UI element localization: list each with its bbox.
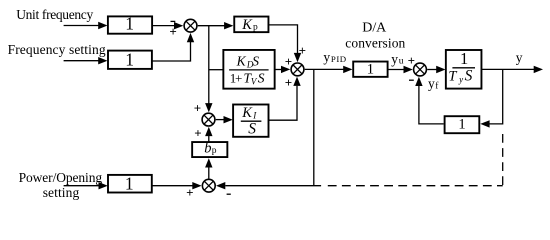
node: plus sign at S2 top input xyxy=(299,43,306,58)
svg-text:u: u xyxy=(399,57,404,67)
summing junction S2: PID sum xyxy=(291,63,304,76)
node: D/A conversion label xyxy=(345,21,405,51)
svg-text:1: 1 xyxy=(367,62,375,78)
svg-text:p: p xyxy=(253,23,258,33)
wire: S5 up to bp block xyxy=(205,158,212,178)
svg-text:K: K xyxy=(236,53,247,68)
svg-text:y: y xyxy=(516,50,523,65)
svg-text:1: 1 xyxy=(125,50,134,70)
svg-text:1: 1 xyxy=(458,116,466,132)
svg-text:S: S xyxy=(258,70,265,85)
svg-text:+: + xyxy=(285,75,292,90)
wire: dashed feedback vertical segment xyxy=(502,134,504,185)
node: minus sign at S3 bottom input xyxy=(409,79,414,81)
svg-text:PID: PID xyxy=(331,54,347,64)
svg-text:D/A: D/A xyxy=(362,21,387,36)
wire: bp up to S4 bottom input xyxy=(205,127,212,142)
wire: output branch down into FB block xyxy=(480,69,502,127)
svg-text:y: y xyxy=(458,75,463,85)
node: plus sign at S4 bottom input xyxy=(194,125,201,140)
wire: Kp output to S2 top input xyxy=(269,25,301,62)
svg-text:K: K xyxy=(241,105,253,121)
block DA: D/A converter gain 1 xyxy=(353,62,387,78)
svg-text:f: f xyxy=(435,80,439,91)
node: plus sign at S2 bottom input xyxy=(285,75,292,90)
node: yPID label xyxy=(323,50,346,65)
svg-text:1: 1 xyxy=(125,174,134,194)
wire: frequency setting input arrow xyxy=(64,57,108,64)
wire: KI output up to S2 bottom input xyxy=(269,77,301,121)
wire: error branch into KD block xyxy=(209,69,224,71)
svg-text:setting: setting xyxy=(43,185,80,200)
block KD: derivative term KD.S/(1+TV.S) xyxy=(223,50,274,89)
svg-text:Frequency setting: Frequency setting xyxy=(8,42,106,57)
summing junction S1 xyxy=(184,19,197,32)
block KI: integral term KI/S xyxy=(233,105,268,138)
node: plus sign at S4 top input xyxy=(194,100,201,115)
wire: B1 to summing junction S1 xyxy=(152,22,183,29)
svg-text:y: y xyxy=(428,76,435,91)
svg-text:T: T xyxy=(448,68,457,84)
svg-text:+: + xyxy=(194,125,201,140)
block B2: frequency setting sampling gain 1 xyxy=(108,50,152,70)
summing junction S5: power feedback sum xyxy=(202,179,215,192)
svg-text:+: + xyxy=(186,185,193,200)
svg-text:1: 1 xyxy=(460,49,468,68)
svg-text:Unit frequency: Unit frequency xyxy=(16,7,93,22)
block bp: permanent droop coefficient xyxy=(192,140,227,157)
node: minus sign at S5 right input xyxy=(227,193,231,195)
wire: DA to S3 xyxy=(388,66,413,73)
svg-text:1: 1 xyxy=(125,14,134,34)
summing junction S4: integral input sum xyxy=(202,113,215,126)
node: yf label xyxy=(428,76,439,91)
block B3: power setting sampling gain 1 xyxy=(108,174,152,194)
wire: power/opening input arrow xyxy=(64,182,108,189)
node: Frequency setting label xyxy=(8,42,106,57)
svg-text:p: p xyxy=(212,146,217,156)
wire: output y arrow xyxy=(482,66,543,73)
summing junction S3: servo error xyxy=(414,63,427,76)
node: Power/Opening setting label xyxy=(19,170,103,200)
svg-text:+: + xyxy=(299,43,306,58)
wire: KD output to S2 left input xyxy=(276,66,291,73)
block Ty: servomotor 1/(Ty.S) xyxy=(446,49,482,88)
wire: S2 output to DA block xyxy=(305,66,353,73)
node: plus sign at S2 left input xyxy=(285,54,292,69)
node: yu label xyxy=(391,51,404,66)
wire: S3 to Ty block xyxy=(427,66,445,73)
svg-text:S: S xyxy=(252,53,259,68)
node: plus sign at S5 left input xyxy=(186,185,193,200)
svg-text:S: S xyxy=(248,120,256,137)
svg-text:S: S xyxy=(465,67,473,84)
wire: dashed feedback horizontal segment xyxy=(328,185,503,187)
node: Unit frequency label xyxy=(16,7,93,22)
wire: B2 to S1 bottom input xyxy=(152,33,194,61)
wire: unit frequency input arrow xyxy=(64,22,108,29)
wire: error branch down to integral summing junction S4 xyxy=(205,26,212,113)
wire: yPID feedback branch down xyxy=(313,69,315,185)
svg-text:+: + xyxy=(235,70,242,85)
block B1: unit frequency sampling gain 1 xyxy=(108,14,152,34)
svg-text:K: K xyxy=(241,17,253,33)
block FB: position feedback gain 1 xyxy=(445,116,480,133)
svg-text:conversion: conversion xyxy=(345,36,405,51)
node: plus sign at S1 bottom input xyxy=(169,24,176,39)
wire: FB output to S3 bottom input (yf) xyxy=(415,77,444,124)
block Kp: proportional gain xyxy=(234,17,268,33)
svg-text:+: + xyxy=(169,24,176,39)
node: minus sign at S1 top input xyxy=(171,20,176,22)
wire: B3 to S5 xyxy=(152,182,202,189)
svg-text:+: + xyxy=(408,53,415,68)
svg-text:y: y xyxy=(323,50,330,65)
wire: S1 to Kp block xyxy=(198,22,234,29)
node: plus sign at S3 left input xyxy=(408,53,415,68)
wire: S4 to KI block xyxy=(216,116,233,123)
svg-text:+: + xyxy=(194,100,201,115)
svg-text:b: b xyxy=(204,140,211,156)
svg-text:y: y xyxy=(391,51,398,66)
node: y output label xyxy=(516,50,523,65)
svg-text:Power/Opening: Power/Opening xyxy=(19,170,103,185)
wire: feedback into S5 from right xyxy=(216,182,321,189)
